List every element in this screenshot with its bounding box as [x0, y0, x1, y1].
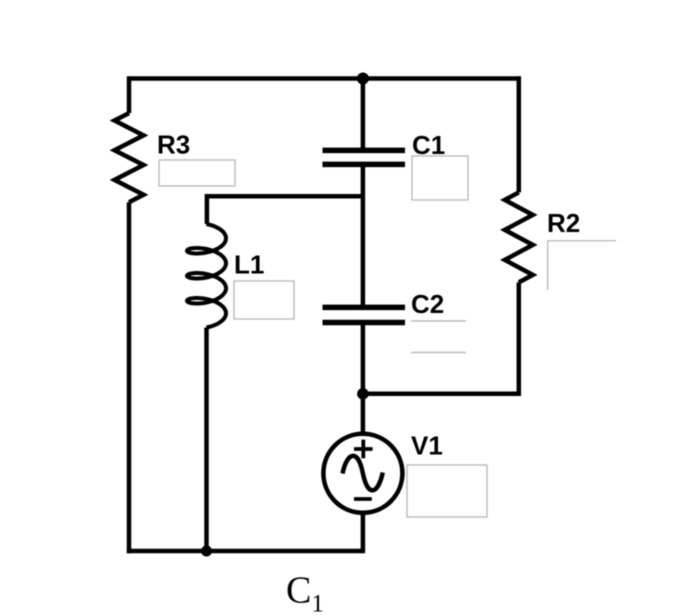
resistor R2 [505, 192, 533, 282]
V1 minus sign [354, 497, 372, 501]
value box L1 [234, 281, 294, 319]
wire L1 bottom lead [204, 328, 209, 552]
wire bottom horizontal [127, 549, 363, 554]
wire L1 branch horizontal [207, 196, 363, 224]
value box C1 [412, 156, 468, 200]
capacitor C1 [323, 150, 406, 164]
voltage source V1 [323, 434, 402, 513]
wire left vertical upper (top corner to R3) [127, 76, 132, 113]
svg-text:C2: C2 [411, 289, 444, 319]
resistor R3 [115, 113, 144, 202]
inductor L1 [187, 224, 226, 328]
svg-text:L1: L1 [234, 250, 264, 280]
svg-text:R3: R3 [157, 130, 190, 160]
svg-text:V1: V1 [411, 431, 443, 461]
wire left vertical lower (R3 to bottom corner) [127, 202, 132, 553]
node C (bottom junction) [201, 546, 212, 557]
value box R3 [159, 160, 235, 186]
wire middle vertical (C1 to C2) [361, 164, 366, 307]
wire right vertical lower (R2 to corner) [363, 282, 519, 393]
wire V1 top lead [361, 394, 366, 435]
svg-text:C1: C1 [286, 570, 324, 616]
V1 plus sign [354, 440, 373, 499]
svg-text:R2: R2 [547, 208, 580, 238]
wire right vertical upper (top corner to R2) [517, 79, 519, 193]
value box C2 (two light lines) [411, 320, 466, 322]
wire V1 bottom lead [361, 513, 366, 553]
value box V1 [407, 465, 487, 517]
wire top horizontal [129, 76, 519, 81]
capacitor C2 [323, 307, 406, 322]
wire middle vertical (C2 to node B) [361, 323, 366, 394]
wire middle vertical top (node A to C1) [361, 79, 366, 151]
node A (top junction) [357, 73, 369, 85]
node B (C2/V1/R2 junction) [357, 388, 369, 400]
V1 sine wave [343, 456, 383, 490]
value box R2 (top+left edges) [548, 241, 616, 290]
